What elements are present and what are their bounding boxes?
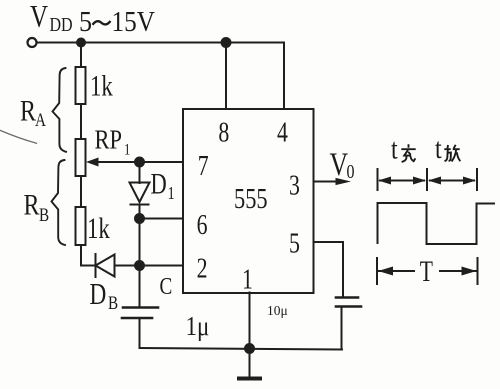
- wire node to D1: [139, 162, 141, 183]
- wire pin 1 to ground: [249, 293, 251, 349]
- svg-text:8: 8: [218, 118, 229, 148]
- wire node to pin 2: [140, 265, 184, 267]
- svg-text:10μ: 10μ: [267, 303, 288, 318]
- dimension t-charge arrow: [378, 169, 428, 190]
- svg-text:t: t: [435, 131, 442, 164]
- wire wiper node to pin 7: [140, 161, 184, 163]
- wire pin 3 output: [314, 178, 352, 185]
- label D1: [151, 166, 175, 203]
- svg-text:A: A: [35, 109, 46, 130]
- node wiper junction: [135, 158, 144, 167]
- label t-discharge: [435, 131, 460, 164]
- svg-text:5: 5: [289, 229, 300, 259]
- svg-text:5: 5: [79, 5, 92, 38]
- wire node to pin 6: [140, 218, 184, 220]
- svg-text:0: 0: [347, 160, 355, 182]
- resistor RA 1k: [76, 67, 86, 104]
- wire RP1 to RB: [80, 176, 82, 207]
- label t-charge: [391, 132, 416, 165]
- ground: [239, 349, 260, 379]
- wire node to capacitor C: [139, 266, 141, 308]
- capacitor C 1u: [122, 308, 158, 319]
- label RP1: [95, 126, 131, 159]
- svg-text:B: B: [39, 204, 49, 225]
- svg-text:555: 555: [234, 184, 268, 215]
- svg-text:1: 1: [124, 141, 130, 159]
- node pin2 junction: [135, 261, 144, 270]
- diode DB: [96, 254, 115, 277]
- svg-text:R: R: [24, 188, 41, 221]
- label V0: [330, 147, 355, 183]
- svg-text:D: D: [90, 277, 107, 311]
- svg-text:DD: DD: [50, 13, 73, 35]
- capacitor 10u: [336, 298, 361, 307]
- svg-text:7: 7: [198, 152, 209, 182]
- svg-text:4: 4: [277, 118, 288, 148]
- svg-text:RP: RP: [95, 126, 122, 155]
- svg-text:2: 2: [197, 254, 208, 284]
- svg-text:C: C: [160, 273, 173, 300]
- svg-text:6: 6: [197, 211, 208, 241]
- diode D1: [130, 183, 150, 205]
- svg-text:1: 1: [168, 182, 175, 203]
- wire DB to node: [115, 265, 140, 267]
- node pin8 junction: [222, 38, 231, 47]
- wire pin 4 drop: [283, 43, 285, 110]
- wire 10u cap to bottom rail: [341, 307, 343, 350]
- resistor RB 1k: [76, 207, 86, 245]
- svg-text:T: T: [420, 255, 433, 288]
- wire pin6 node to pin2 node: [139, 219, 141, 266]
- svg-text:B: B: [108, 292, 118, 313]
- terminal VDD (open circle): [28, 38, 37, 47]
- node ground junction: [245, 344, 254, 353]
- potentiometer RP1: [76, 139, 86, 176]
- wire bottom rail: [140, 348, 343, 350]
- svg-text:15V: 15V: [112, 5, 156, 37]
- wire C to bottom rail: [139, 318, 141, 348]
- brace RB: [52, 160, 66, 245]
- svg-text:V: V: [30, 0, 48, 35]
- label RA: [20, 94, 46, 130]
- label RB: [24, 188, 50, 225]
- waveform square wave: [378, 203, 495, 244]
- node top-left junction: [77, 39, 85, 47]
- svg-text:1: 1: [242, 265, 253, 295]
- svg-text:1μ: 1μ: [186, 312, 210, 341]
- label VDD: [30, 0, 73, 35]
- label 5~15V: [79, 5, 155, 38]
- wire top rail: [37, 42, 285, 44]
- svg-text:1k: 1k: [90, 68, 113, 102]
- svg-text:3: 3: [289, 171, 300, 201]
- node pin6 junction: [135, 214, 144, 223]
- wire RB down and right to DB: [81, 245, 96, 266]
- wire D1 to pin6 node: [139, 205, 141, 220]
- wire pin 5 to cap: [314, 242, 344, 296]
- wire RA to RP1: [80, 104, 82, 139]
- dimension t-discharge arrow: [428, 169, 477, 190]
- dimension T arrow: [377, 258, 478, 284]
- svg-text:t: t: [391, 132, 398, 165]
- wiper arrow of RP1: [86, 158, 140, 167]
- svg-text:1k: 1k: [87, 211, 110, 245]
- wire pin 8 drop: [225, 43, 227, 110]
- svg-text:D: D: [151, 166, 167, 200]
- label DB: [90, 277, 119, 314]
- IC 555 box U1: [183, 109, 314, 293]
- stray page curve: [1, 131, 37, 144]
- wire VDD to RA: [80, 43, 82, 68]
- brace RA: [53, 68, 67, 152]
